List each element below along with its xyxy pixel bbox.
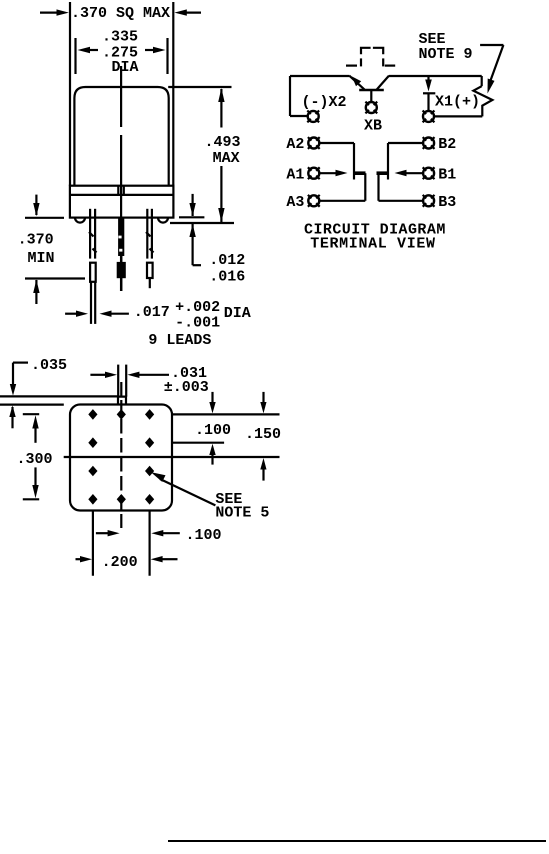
svg-text:9 LEADS: 9 LEADS — [148, 332, 211, 349]
dimension .012/.016 upper arrow — [189, 194, 195, 216]
svg-text:.012: .012 — [209, 252, 245, 269]
bottom rule line — [168, 840, 546, 842]
leader arrow SEE NOTE 9 — [480, 45, 503, 94]
transistor collector — [377, 76, 389, 90]
terminal XB — [365, 102, 377, 114]
wire contact B to B3 — [379, 173, 423, 201]
dimension .100 up arrow — [209, 444, 215, 465]
leader arrow SEE NOTE 5 — [151, 472, 216, 505]
.370 MIN upper reference line — [25, 217, 64, 219]
terminal X1 — [423, 111, 435, 123]
base bottom extension line right — [179, 216, 204, 218]
package top extension line left — [0, 404, 64, 406]
pin row1 col2 — [117, 409, 126, 420]
pin row3 col1 — [88, 466, 97, 477]
svg-text:MAX: MAX — [213, 150, 240, 167]
wire: XB stub — [370, 90, 372, 102]
dimension .200 left arrow — [76, 556, 93, 562]
dimension .031 right arrow — [127, 372, 169, 378]
package horizontal centerline — [64, 456, 280, 458]
pin row2 col3 — [145, 437, 154, 448]
pin row2 col1 — [88, 437, 97, 448]
package centerline upper segment — [120, 66, 122, 127]
.493 extension line from can top — [168, 86, 231, 88]
wire: left drop to X2 — [290, 76, 307, 116]
lead 3 middle rectangle — [147, 263, 153, 278]
dimension .370 SQ MAX left arrow — [40, 9, 69, 15]
lead 2 middle rectangle — [118, 263, 125, 277]
svg-text:DIA: DIA — [112, 59, 139, 76]
svg-text:A1: A1 — [286, 167, 304, 184]
side view: .370 SQ MAX left extension line — [69, 2, 71, 186]
svg-text:A3: A3 — [286, 194, 304, 211]
svg-text:B2: B2 — [438, 136, 456, 153]
lead 1 lower segment — [91, 282, 95, 324]
dimension .012/.016 lower arrow with elbow — [189, 224, 201, 265]
dimension .200 right arrow — [151, 556, 178, 562]
terminal A2 — [308, 137, 320, 149]
lead 3 upper segment — [146, 209, 154, 259]
pin col1 extension line below — [92, 511, 94, 576]
terminal A1 — [308, 167, 320, 179]
svg-text:.335: .335 — [102, 29, 138, 46]
pin row1 col3 — [145, 409, 154, 420]
wire B2 to contact — [388, 143, 423, 180]
pin row3 col3 — [145, 466, 154, 477]
pin row1 extension line right — [172, 413, 280, 415]
dimension .031 extension lines — [118, 365, 126, 397]
wire contact A to A3 — [320, 173, 366, 201]
svg-text:.370 SQ MAX: .370 SQ MAX — [71, 5, 170, 22]
terminal B3 — [423, 195, 435, 207]
dimension .031 left arrow — [90, 372, 117, 378]
wire A1 with arrow — [320, 170, 348, 176]
lead 2 lower stub — [120, 277, 123, 291]
dimension .335/.275 left arrow — [78, 47, 99, 53]
svg-text:.370: .370 — [18, 232, 54, 249]
left standoff bump — [75, 218, 85, 223]
svg-text:MIN: MIN — [28, 250, 55, 267]
bottom view package outline — [70, 405, 172, 511]
svg-text:-.001: -.001 — [175, 315, 220, 332]
pin row2 extension line right — [172, 442, 224, 444]
package can outline — [74, 87, 168, 186]
right standoff bump — [158, 218, 168, 223]
lead 1 upper segment — [89, 209, 97, 259]
pin col3 extension line below — [149, 511, 151, 576]
terminal X2 — [307, 111, 319, 123]
package vertical centerline — [120, 382, 122, 528]
dimension .035 upper arrow with elbow — [10, 363, 28, 396]
svg-text:.493: .493 — [205, 134, 241, 151]
svg-text:±.003: ±.003 — [164, 379, 209, 396]
.370 MIN lower arrow — [33, 280, 39, 305]
wire A2 to contact — [320, 143, 354, 180]
X1 branch arrow to bar — [423, 76, 435, 93]
svg-text:.300: .300 — [17, 451, 53, 468]
dimension .100 bottom left arrow — [96, 530, 120, 536]
wire: right side with break zigzag — [435, 76, 493, 116]
terminal B2 — [423, 137, 435, 149]
wire: top bus left segment — [290, 75, 349, 77]
svg-text:XB: XB — [364, 118, 382, 135]
base flange step line — [70, 194, 173, 196]
lead 1 middle rectangle — [90, 263, 96, 282]
base flange outline — [70, 186, 173, 218]
dimension .300 row1 tick — [23, 413, 39, 415]
dimension .335/.275 right extension tick — [166, 38, 168, 74]
svg-text:NOTE 5: NOTE 5 — [215, 504, 269, 521]
dimension .370 SQ MAX right arrow — [174, 9, 201, 15]
dimension .150 down arrow — [260, 392, 266, 414]
dimension .100 bottom right arrow — [151, 530, 180, 536]
pulse waveform symbol — [346, 48, 395, 67]
package centerline lower segment — [120, 135, 122, 218]
pin row1 col1 — [88, 409, 97, 420]
svg-text:TERMINAL VIEW: TERMINAL VIEW — [310, 236, 435, 253]
wire: top bus right segment — [389, 75, 482, 77]
side view: .370 SQ MAX right extension line — [172, 2, 174, 186]
dimension .300 lower arrow — [32, 467, 38, 498]
svg-text:.100: .100 — [195, 422, 231, 439]
dimension .300 row4 tick — [23, 498, 39, 500]
contact bar B — [377, 171, 388, 175]
svg-text:NOTE 9: NOTE 9 — [419, 46, 473, 63]
wire B1 with arrow — [395, 170, 423, 176]
pin row4 col2 — [117, 494, 126, 505]
svg-text:.150: .150 — [245, 426, 281, 443]
dimension .150 up arrow — [260, 458, 266, 481]
pin row4 col3 — [145, 494, 154, 505]
svg-text:.200: .200 — [102, 554, 138, 571]
index tab at top center — [118, 397, 126, 405]
dimension .017 right arrow — [100, 311, 129, 317]
.370 MIN upper arrow — [33, 195, 39, 217]
svg-text:B1: B1 — [438, 167, 456, 184]
dimension .300 upper arrow — [32, 415, 38, 443]
dimension .493 MAX line with arrows — [218, 88, 224, 222]
terminal B1 — [423, 167, 435, 179]
.370 MIN lower reference line — [25, 277, 85, 279]
lead 3 lower stub — [149, 278, 151, 288]
lead 2 (center) upper segment — [118, 219, 122, 264]
svg-text:+.002: +.002 — [175, 299, 220, 316]
dimension .100 down arrow — [209, 392, 215, 414]
base center ticks — [117, 186, 119, 195]
svg-text:.035: .035 — [31, 357, 67, 374]
dimension .335/.275 right arrow — [145, 47, 166, 53]
dimension .335/.275 left extension tick — [74, 38, 76, 74]
pin row4 col1 — [88, 494, 97, 505]
dimension .017 left arrow — [65, 311, 88, 317]
transistor emitter with arrow — [349, 76, 364, 90]
svg-text:.100: .100 — [186, 527, 222, 544]
seating plane line right — [170, 222, 234, 224]
wire: X1 stub below bar — [427, 93, 429, 110]
tab top extension line left — [0, 395, 118, 397]
contact bar A — [355, 171, 366, 175]
svg-text:(-)X2: (-)X2 — [302, 94, 347, 111]
svg-text:B3: B3 — [438, 194, 456, 211]
svg-text:DIA: DIA — [224, 305, 251, 322]
svg-text:A2: A2 — [286, 136, 304, 153]
transistor base bar — [359, 89, 384, 92]
terminal A3 — [308, 195, 320, 207]
svg-text:.016: .016 — [209, 269, 245, 286]
svg-text:.017: .017 — [134, 304, 170, 321]
dimension .035 lower arrow — [9, 405, 15, 428]
svg-text:X1(+): X1(+) — [435, 94, 480, 111]
